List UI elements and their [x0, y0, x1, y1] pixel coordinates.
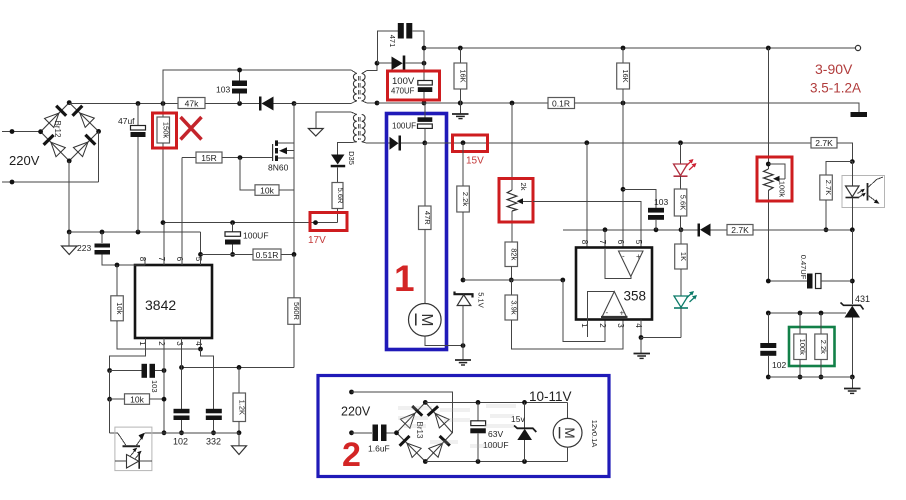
resistor 1K: [675, 230, 688, 296]
svg-text:0.51R: 0.51R: [256, 250, 279, 260]
wire HV+ rail from bridge top: [69, 101, 178, 106]
label 431: [855, 294, 870, 304]
svg-text:3842: 3842: [145, 297, 176, 313]
wire mid rail left segment: [377, 101, 548, 106]
red highlight box 2k: [499, 179, 533, 223]
svg-text:3-90V: 3-90V: [815, 61, 853, 77]
resistor 16K second: [617, 48, 631, 248]
bridge rectifier Br13: [394, 400, 452, 464]
wire secondary1 top lead to rectifier node: [362, 61, 380, 74]
wire opto collector branch: [110, 399, 118, 433]
ground 358: [634, 338, 651, 359]
svg-text:-: -: [622, 252, 625, 261]
svg-text:6: 6: [616, 240, 625, 245]
resistor 2.2k feedback: [815, 313, 828, 379]
svg-text:2.7K: 2.7K: [815, 138, 833, 148]
svg-text:470UF: 470UF: [391, 87, 415, 96]
diode D35: [331, 143, 352, 183]
ground 431: [844, 377, 861, 393]
svg-text:100k: 100k: [798, 339, 807, 356]
capacitor 100UF vcc: [225, 223, 241, 257]
wire bridge bottom down: [67, 161, 72, 235]
svg-text:358: 358: [624, 289, 647, 304]
svg-text:16K: 16K: [459, 69, 468, 82]
wire divider node row: [463, 278, 565, 283]
resistor 560R: [288, 254, 301, 367]
capacitor 100UF secondary: [418, 103, 433, 143]
svg-text:100UF: 100UF: [243, 231, 269, 241]
svg-text:17V: 17V: [308, 235, 326, 246]
label 223: [77, 243, 91, 253]
svg-text:4: 4: [634, 323, 643, 328]
op-amp A triangle (points down): [605, 248, 643, 279]
svg-text:7: 7: [157, 257, 166, 262]
resistor 100k feedback: [794, 313, 807, 379]
blue highlight box 2: [318, 376, 609, 477]
svg-text:220V: 220V: [341, 405, 371, 419]
watermark faint: [398, 404, 516, 448]
diode zener 5.1V: [455, 292, 473, 346]
diode secondary rectifier top: [377, 56, 426, 72]
svg-text:1.6uF: 1.6uF: [368, 444, 390, 454]
node positive output terminal: [855, 45, 860, 50]
resistor 150k in series (red boxed): [157, 104, 171, 223]
potentiometer 100k (red boxed): [764, 162, 786, 281]
svg-text:47k: 47k: [185, 99, 199, 109]
svg-text:223: 223: [77, 243, 91, 253]
svg-text:47uf: 47uf: [118, 116, 135, 126]
svg-text:2.7K: 2.7K: [731, 225, 749, 235]
ground primary (open triangle): [62, 232, 78, 255]
label 103 snubber: [216, 85, 230, 95]
wire output plus rail top: [424, 46, 856, 51]
resistor 10k vref (vertical left): [111, 265, 201, 349]
svg-text:15V: 15V: [466, 156, 484, 167]
wire 15V supply rail: [425, 140, 811, 145]
svg-text:103: 103: [654, 197, 668, 207]
svg-text:D35: D35: [347, 151, 356, 165]
red X mark: [181, 117, 202, 140]
svg-text:10k: 10k: [130, 395, 144, 405]
label 332: [206, 437, 221, 447]
wire drain node to primary bottom: [294, 101, 357, 104]
diode snubber (points left): [259, 97, 296, 111]
svg-text:103: 103: [216, 85, 230, 95]
resistor 16K first: [454, 48, 468, 103]
svg-text:2.2k: 2.2k: [819, 340, 828, 354]
resistor 1.2K: [233, 367, 246, 435]
ground logic (open triangle): [232, 433, 247, 455]
svg-text:2.7K: 2.7K: [824, 180, 833, 195]
svg-text:3.5-1.2A: 3.5-1.2A: [810, 81, 861, 96]
label D35: [347, 151, 356, 165]
wire 100k pot feed from top rail: [767, 48, 769, 164]
svg-text:100k: 100k: [778, 181, 787, 198]
resistor 3.9k: [505, 280, 623, 349]
node AC input terminal top: [2, 129, 41, 134]
wire logic ground rail: [146, 432, 240, 434]
wire 47k to snubber node: [205, 101, 260, 106]
wire pin4 ground node: [639, 320, 681, 340]
resistor 10k fb: [107, 371, 166, 405]
op-amp B triangle (points up): [587, 292, 627, 338]
svg-text:150k: 150k: [162, 122, 171, 139]
svg-text:560R: 560R: [292, 302, 301, 321]
label 100UF vcc: [243, 231, 269, 241]
resistor 10k gate: [240, 158, 294, 196]
svg-text:M: M: [562, 427, 577, 438]
node box2 terminal bottom: [349, 430, 372, 435]
svg-text:5: 5: [634, 240, 643, 245]
svg-text:5.6K: 5.6K: [679, 195, 688, 210]
svg-text:5.6R: 5.6R: [336, 188, 345, 204]
resistor 0.1R: [548, 98, 575, 109]
LED green indicator: [674, 291, 697, 338]
svg-text:8: 8: [138, 257, 147, 262]
svg-text:102: 102: [173, 437, 188, 447]
svg-text:15R: 15R: [201, 153, 217, 163]
svg-text:5: 5: [194, 257, 203, 262]
label 0.47UF: [799, 255, 808, 280]
wire ref row: [766, 311, 846, 316]
svg-text:82k: 82k: [509, 248, 518, 260]
wire 560R bottom to pin3 row: [179, 365, 294, 370]
svg-text:4: 4: [194, 341, 203, 346]
label 103 opamp: [654, 197, 668, 207]
wire VCC 17V node: [161, 220, 338, 225]
node box2 terminal top: [349, 390, 452, 433]
label 8N60: [268, 163, 289, 173]
label 220V input: [9, 153, 40, 168]
wire primary negative rail: [69, 230, 200, 235]
wire motor1 bottom to zener rail: [425, 336, 466, 348]
svg-text:103: 103: [150, 380, 159, 393]
capacitor 47uf: [131, 104, 146, 233]
svg-text:10k: 10k: [115, 302, 124, 314]
wire secondary2 bottom lead to output diode: [362, 142, 389, 144]
wire bridge right vertex down to lower terminal: [98, 131, 100, 182]
red highlight box 15V: [453, 135, 488, 152]
svg-text:431: 431: [855, 294, 870, 304]
resistor 0.51R: [201, 249, 297, 260]
pin labels 358 bottom 1 2 3 4: [580, 323, 643, 328]
wire wiper to pin5: [533, 201, 641, 247]
wire pin7 VCC up: [163, 223, 165, 265]
svg-text:1: 1: [394, 258, 415, 299]
capacitor 103 comp: [110, 364, 167, 378]
svg-text:2.2k: 2.2k: [461, 192, 470, 206]
resistor 47k: [178, 98, 205, 109]
label 10-11V: [529, 389, 572, 404]
svg-text:220V: 220V: [9, 153, 40, 168]
optocoupler U3 LED side (top right): [842, 162, 885, 230]
svg-text:2: 2: [598, 323, 607, 328]
svg-text:16K: 16K: [621, 69, 630, 82]
svg-text:-: -: [606, 308, 609, 317]
wire op2 inverting feed: [563, 280, 605, 341]
label numeral 2: [342, 436, 361, 474]
wire pin2 fb down: [162, 338, 167, 435]
node negative output terminal bar: [851, 112, 868, 117]
svg-text:332: 332: [206, 437, 221, 447]
wire Vref node to pin 8: [115, 258, 145, 267]
resistor 2.2k: [457, 143, 470, 283]
node AC input terminal bottom: [2, 180, 99, 185]
transistor opto-coupler phototransistor U3: [115, 427, 152, 471]
label 5.1V: [477, 292, 486, 307]
capacitor 102 right: [760, 313, 776, 379]
label 47uf: [118, 116, 135, 126]
svg-text:2: 2: [342, 436, 361, 474]
wire pin6 output up to 15R: [181, 158, 183, 265]
label 100UF secondary: [392, 122, 416, 131]
capacitor 223: [95, 232, 118, 265]
wire pin6 node row: [621, 187, 656, 208]
capacitor 470UF 100V (red boxed): [418, 46, 433, 106]
svg-text:1K: 1K: [679, 252, 688, 261]
svg-text:47R: 47R: [423, 211, 432, 225]
capacitor 471 snubber: [377, 23, 424, 63]
diode TL431: [841, 303, 864, 380]
potentiometer 2k (red boxed): [507, 103, 533, 242]
diode output rectifier (in blue box): [389, 136, 427, 151]
wire mid rail right segment to negative terminal: [575, 101, 860, 112]
svg-text:2k: 2k: [519, 183, 528, 191]
capacitor 103 opamp: [648, 208, 664, 230]
label 12v0.1A: [590, 420, 599, 448]
wire secondary1 bottom lead to mid rail: [362, 101, 380, 106]
motor M1: [409, 304, 442, 337]
ground aux (open triangle): [308, 129, 323, 137]
resistor 47R: [419, 143, 432, 304]
wire pin5 ground link up to primary rail: [198, 232, 203, 265]
red highlight box 100k: [757, 157, 792, 201]
wire bottom ref rail: [768, 376, 852, 378]
wire aux winding top to ground: [316, 112, 357, 129]
svg-text:102: 102: [772, 360, 786, 370]
svg-text:8: 8: [580, 240, 589, 245]
diode zener 15v: [514, 402, 536, 461]
op-amp IC U2 358 body: [576, 248, 652, 320]
label 3.5-1.2A: [810, 81, 861, 96]
label numeral 1: [394, 258, 415, 299]
LED red indicator: [674, 143, 697, 189]
label 15V: [466, 156, 484, 167]
pin labels 3842 top 8 7 6 5: [138, 257, 203, 262]
label Br13: [415, 422, 424, 439]
svg-text:10k: 10k: [260, 186, 274, 196]
wire pin7 stub: [604, 230, 606, 248]
motor M2: [553, 402, 582, 461]
resistor 5.6R: [332, 183, 345, 223]
resistor 2.7K top: [811, 138, 855, 165]
wire pin1 comp: [107, 338, 145, 373]
svg-text:2: 2: [157, 341, 166, 346]
svg-text:3: 3: [175, 341, 184, 346]
transistor MOSFET 8N60: [273, 104, 294, 255]
svg-text:5.1V: 5.1V: [477, 292, 486, 307]
svg-text:100UF: 100UF: [392, 122, 416, 131]
svg-text:3.9k: 3.9k: [509, 300, 518, 314]
transformer T1: [353, 74, 365, 142]
label 102 right: [772, 360, 786, 370]
resistor 15R: [182, 152, 273, 163]
ground motor return: [455, 346, 471, 365]
svg-text:Br12: Br12: [53, 121, 62, 138]
svg-text:0.1R: 0.1R: [552, 98, 570, 108]
pin labels 3842 bottom 1 2 3 4: [138, 341, 203, 346]
svg-text:12v0.1A: 12v0.1A: [590, 420, 599, 448]
svg-text:100V: 100V: [392, 76, 415, 87]
capacitor 102 sense: [174, 409, 190, 435]
svg-text:+: +: [620, 309, 625, 318]
label 15v: [511, 414, 525, 424]
capacitor 100UF 63V: [470, 402, 486, 461]
wire pin8 358 supply: [586, 143, 588, 248]
pin labels 358 top 8 7 6 5: [580, 240, 643, 245]
svg-text:6: 6: [175, 257, 184, 262]
label 1.6uF: [368, 444, 390, 454]
op-amp IC U1 3842 body: [135, 265, 212, 338]
label 103 comp: [150, 380, 159, 393]
wire box2 plus rail: [425, 400, 567, 405]
svg-text:1.2K: 1.2K: [237, 400, 246, 415]
blue highlight box 1: [387, 114, 447, 350]
resistor 5.6K: [674, 189, 687, 230]
label 17V: [308, 235, 326, 246]
label 220V box2: [341, 405, 371, 419]
label Br12: [53, 121, 62, 138]
wire pin3 sense down: [181, 338, 183, 409]
svg-text:7: 7: [598, 240, 607, 245]
wire HV top link to transformer: [163, 70, 357, 104]
svg-text:3: 3: [616, 323, 625, 328]
diode to opamp rail (points left): [681, 224, 727, 237]
label 100V 470UF: [391, 76, 415, 96]
svg-text:0.47UF: 0.47UF: [799, 255, 808, 280]
label 100k: [778, 181, 787, 198]
capacitor 103 snubber: [232, 68, 247, 104]
wire 358 output rail: [563, 227, 684, 232]
wire aux winding bottom to D35: [352, 141, 357, 144]
capacitor 0.47UF: [766, 274, 852, 289]
label 3-90V: [815, 61, 853, 77]
label 102: [173, 437, 188, 447]
svg-text:63V: 63V: [488, 429, 503, 439]
svg-text:M: M: [418, 314, 435, 327]
bridge rectifier Br12: [38, 100, 101, 163]
red highlight box 100V 470UF: [388, 71, 440, 100]
wire pin4 node and timing jog: [198, 338, 213, 409]
svg-text:10-11V: 10-11V: [529, 389, 572, 404]
red highlight box 17V: [310, 213, 347, 231]
resistor 2.7K vertical: [820, 162, 853, 233]
wire opto cathode down to 431: [850, 230, 855, 304]
green highlight box: [789, 327, 835, 366]
label 2k: [519, 183, 528, 191]
svg-text:8N60: 8N60: [268, 163, 289, 173]
capacitor 332 timing: [206, 409, 222, 435]
wire box2 minus rail: [425, 459, 567, 464]
red highlight box around 150k: [153, 113, 177, 148]
svg-text:+: +: [636, 252, 641, 261]
label 63V 100UF: [483, 429, 509, 450]
resistor 82k: [505, 242, 518, 282]
svg-text:471: 471: [388, 35, 397, 48]
resistor 2.7K lower: [727, 225, 855, 236]
label 471: [388, 35, 397, 48]
ground secondary reference under 16K: [452, 103, 469, 119]
capacitor 1.6uF: [373, 425, 397, 442]
